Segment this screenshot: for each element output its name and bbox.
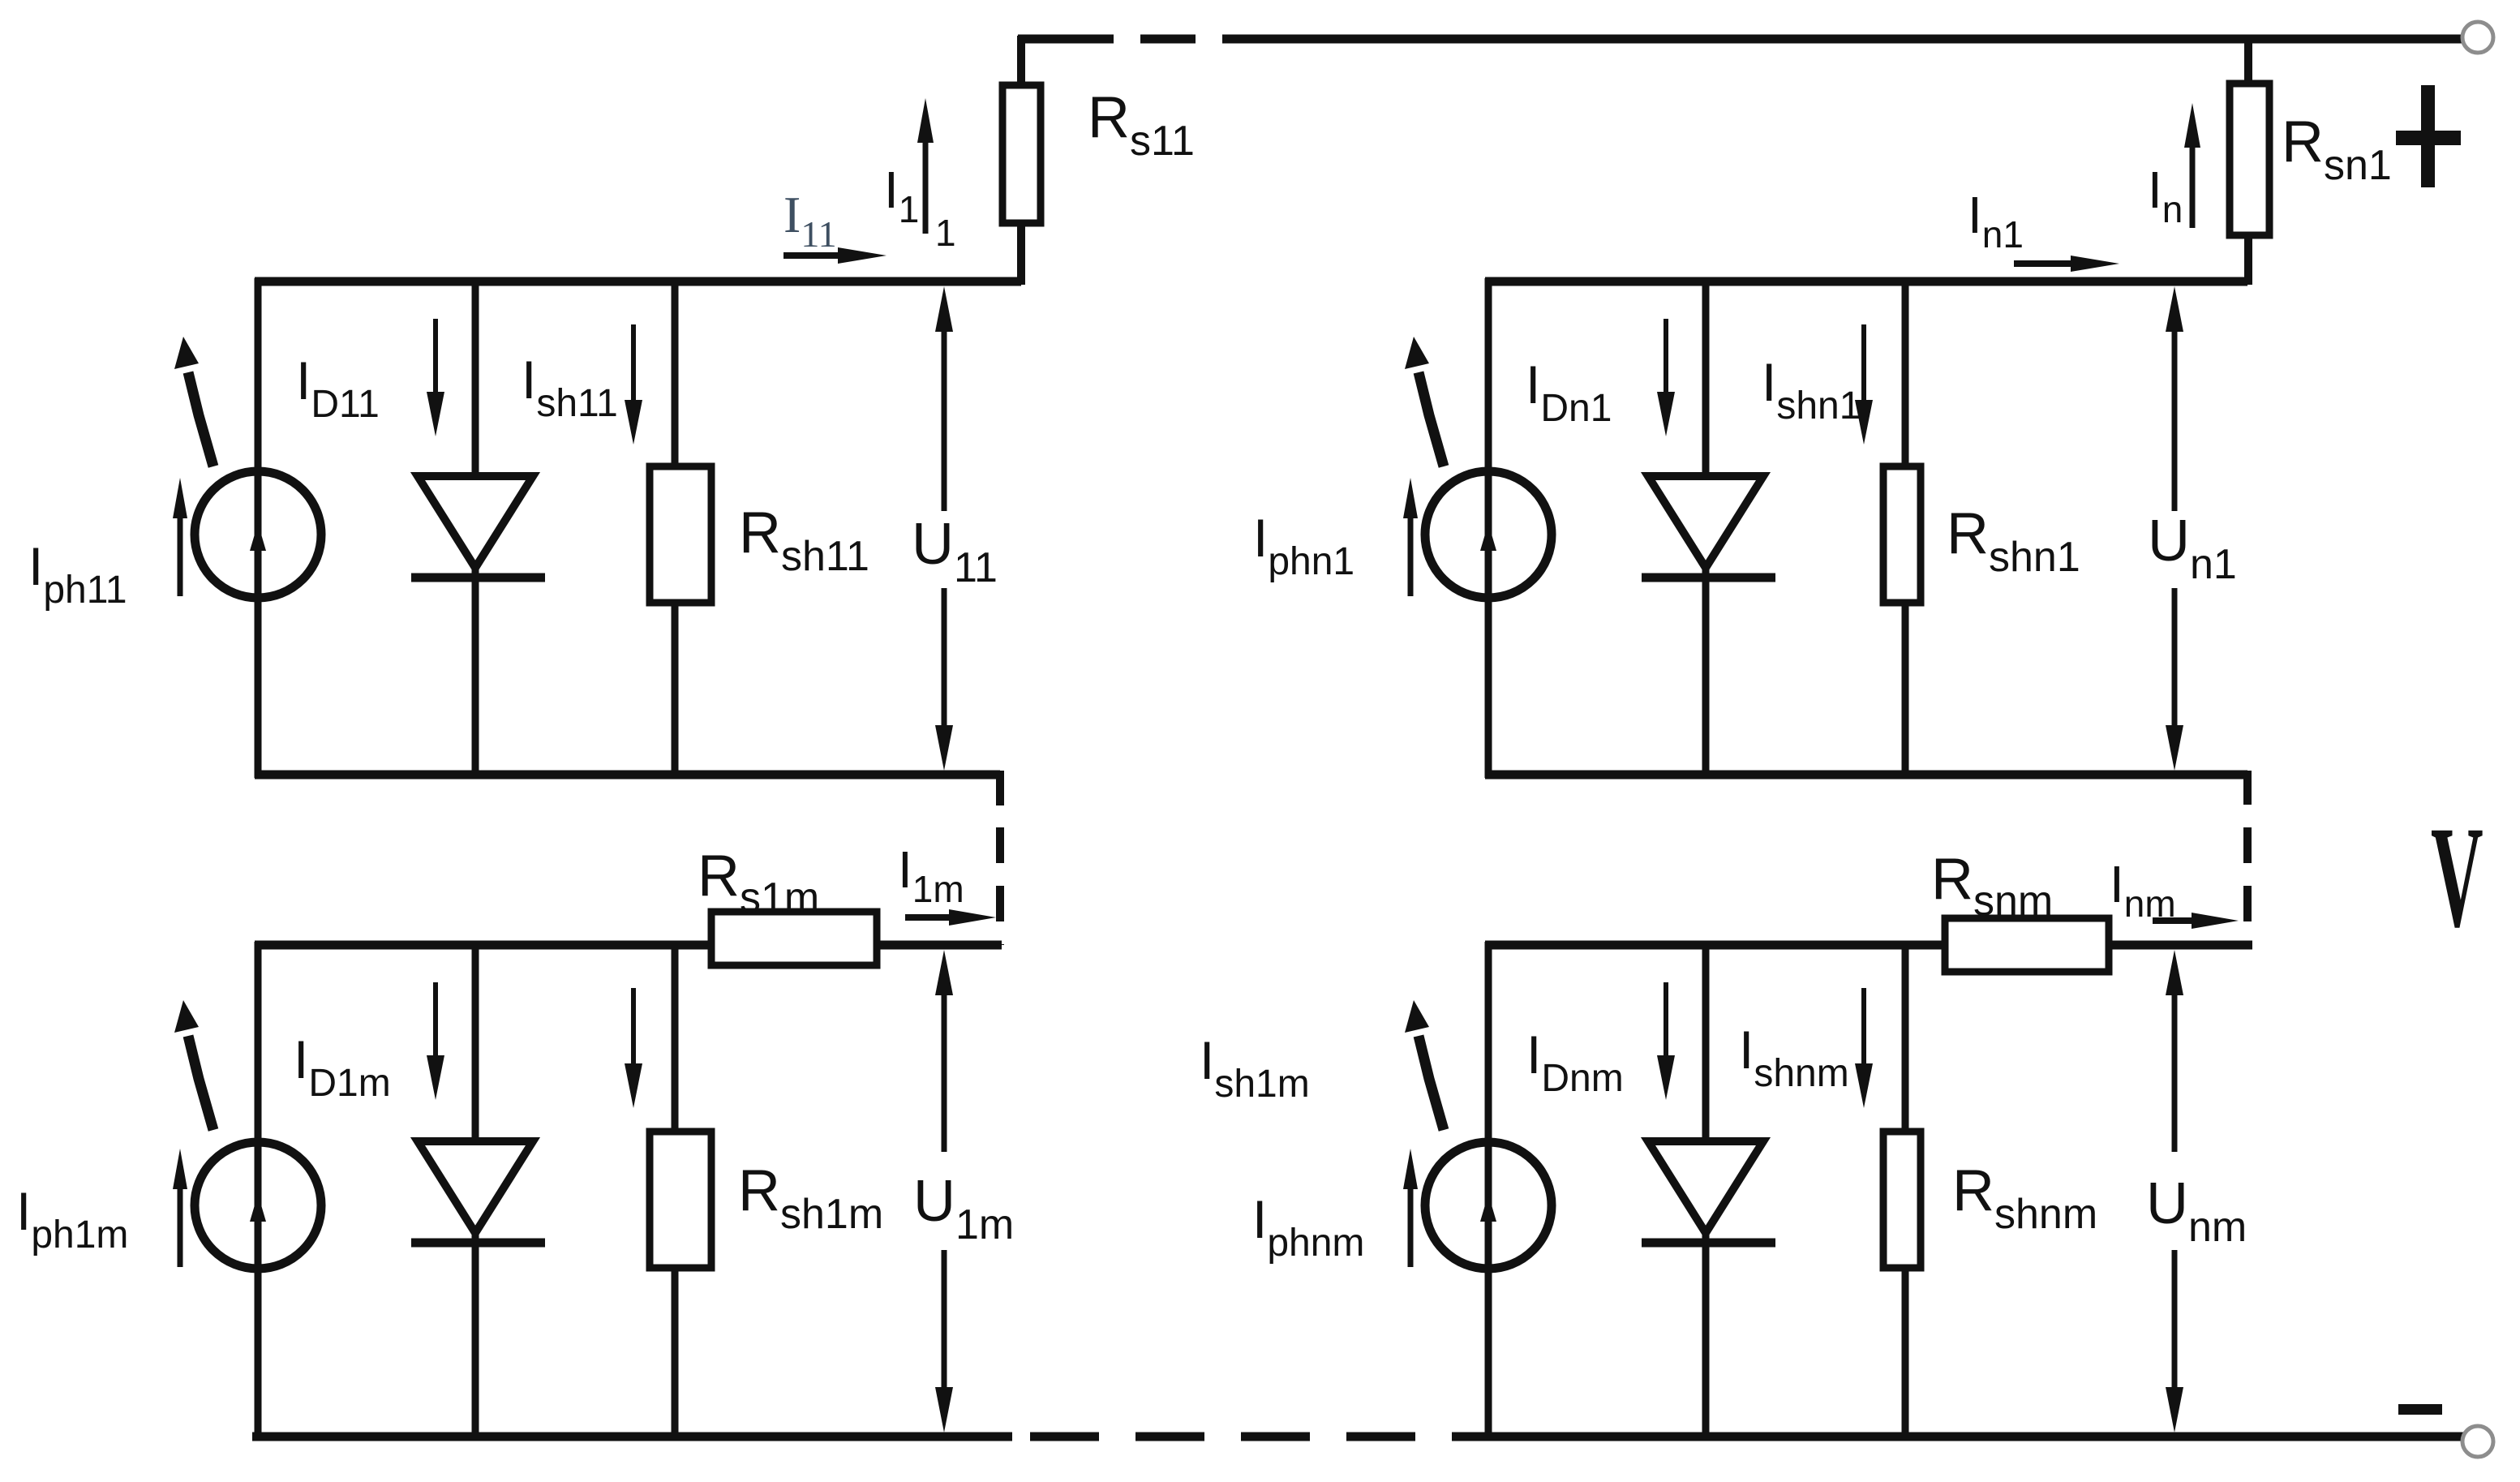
arrow I11 (783, 252, 838, 259)
voltage arrow U11 (935, 286, 953, 332)
wire bottom bus dashed (1030, 1433, 1465, 1441)
wire shunt branch nm (1902, 945, 1909, 1440)
wire diode branch 11 (472, 281, 479, 778)
arrow Iph11 (178, 518, 183, 596)
arrow Iph1m (178, 1189, 183, 1267)
voltage arrow U1m (935, 950, 953, 995)
wire top bus solid right (1243, 35, 2463, 44)
voltage arrow Un1 (2166, 286, 2183, 332)
arrow Inm (2153, 917, 2192, 924)
arrow ID1m (433, 982, 438, 1055)
wire top bus dashed (1058, 35, 1245, 44)
wire diode branch nm (1702, 945, 1710, 1440)
svg-text:V: V (2431, 797, 2484, 958)
wire top rail cell nm right (2107, 941, 2252, 950)
wire top rail cell 1m right (875, 941, 1002, 950)
wire dashed connector left column (996, 827, 1004, 945)
diode Dn1 (1648, 476, 1763, 568)
arrow IDnm (1664, 982, 1668, 1055)
wire bottom rail cell n1 (1485, 771, 2247, 780)
light arrow into Iph11 (188, 372, 213, 466)
wire left vertical nm (1485, 942, 1492, 1440)
arrow I1 (string current up) (923, 143, 929, 234)
wire bottom rail cell nm (1465, 1433, 2463, 1441)
arrow In1 (2014, 260, 2071, 267)
current source Iph1m (195, 1142, 321, 1269)
arrow Ish11 (631, 324, 636, 400)
wire left vertical 1m (255, 942, 262, 1440)
wire Rs11 bottom stub (1017, 221, 1025, 285)
arrow Ish1m (631, 988, 636, 1063)
diode D1m (418, 1141, 533, 1233)
plus sign (2396, 131, 2461, 145)
arrow Ishnm (1861, 988, 1866, 1063)
resistor Rshn1 (1883, 466, 1921, 603)
minus sign (2398, 1404, 2442, 1415)
current source Iph11 (195, 471, 321, 598)
wire left vertical 11 (255, 278, 262, 778)
arrow Iphnm (1408, 1189, 1414, 1267)
wire top rail cell 11 (255, 277, 1021, 286)
arrow Iphn1 (1408, 518, 1414, 596)
wire stub down from cell 11 (996, 771, 1004, 805)
wire Rs11 top stub (1017, 36, 1025, 87)
wire bottom rail cell 1m (252, 1433, 1012, 1441)
light arrow into Iphnm (1419, 1036, 1444, 1130)
resistor Rsn1 (2230, 84, 2269, 235)
diode Dnm (1648, 1141, 1763, 1233)
wire Rsn1 bottom stub (2244, 234, 2252, 285)
arrow IDn1 (1664, 319, 1668, 392)
resistor Rs1m (711, 912, 877, 965)
wire top rail cell n1 (1485, 277, 2247, 286)
svg-text:1: 1 (935, 212, 956, 254)
current source Iphnm (1425, 1142, 1552, 1269)
wire diode branch 1m (472, 945, 479, 1440)
terminal negative (bottom right) (2462, 1426, 2493, 1457)
resistor Rshnm (1883, 1132, 1921, 1268)
resistor Rs11 (1002, 85, 1041, 223)
voltage arrow Unm (2166, 950, 2183, 995)
diode D11 (418, 476, 533, 568)
light arrow into Iphn1 (1419, 372, 1444, 466)
arrow Ishn1 (1861, 324, 1866, 400)
wire top bus solid left (1018, 35, 1058, 44)
wire top rail cell 1m left (255, 941, 713, 950)
arrow In (string current up) (2190, 148, 2196, 228)
current source Iphn1 (1425, 471, 1552, 598)
wire Rsn1 top stub (2244, 36, 2252, 85)
wire shunt branch n1 (1902, 281, 1909, 778)
wire dashed connector right column (2243, 827, 2252, 943)
label V (array voltage) (2431, 797, 2484, 958)
resistor Rsh1m (650, 1132, 711, 1268)
wire shunt branch 11 (672, 281, 679, 778)
wire shunt branch 1m (672, 945, 679, 1440)
wire diode branch n1 (1702, 281, 1710, 778)
resistor Rsh11 (650, 466, 711, 603)
light arrow into Iph1m (188, 1036, 213, 1130)
terminal positive (top right) (2462, 22, 2493, 53)
resistor Rsnm (1945, 918, 2109, 972)
arrow ID11 (433, 319, 438, 392)
wire left vertical n1 (1485, 278, 1492, 778)
wire bottom rail cell 11 (255, 771, 1000, 780)
wire stub down from cell n1 (2243, 771, 2252, 805)
wire top rail cell nm left (1485, 941, 1947, 950)
arrow I1m (905, 914, 949, 921)
